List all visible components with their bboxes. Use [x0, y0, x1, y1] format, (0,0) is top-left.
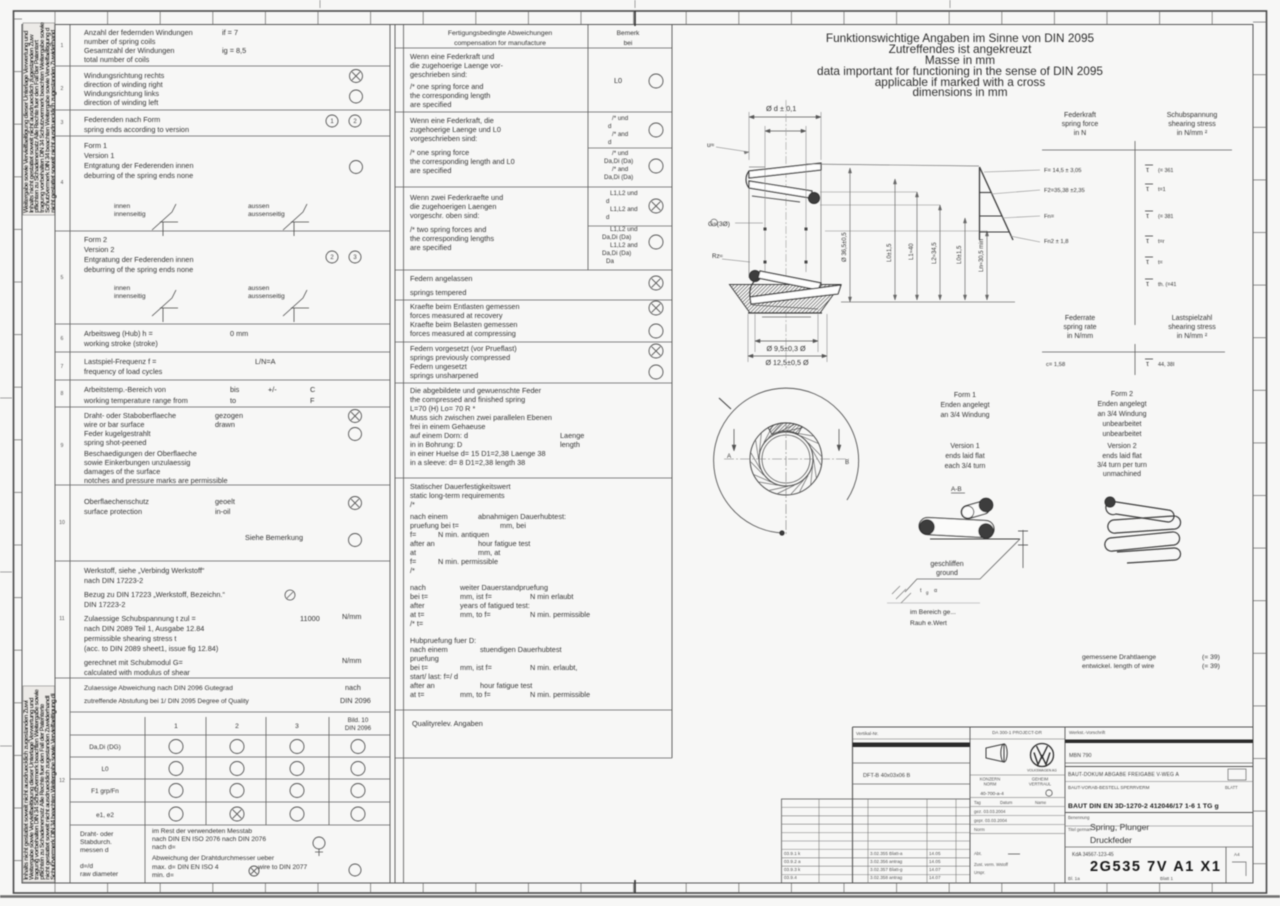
triangle leader lines — [984, 170, 1040, 172]
svg-text:Spring, Plunger: Spring, Plunger — [1090, 822, 1149, 832]
svg-text:springs unsharpened: springs unsharpened — [410, 371, 478, 380]
svg-text:forces measured at recovery: forces measured at recovery — [410, 311, 503, 320]
grid ticks right edge — [1253, 21, 1267, 23]
svg-text:Ø 9,5±0,3 Ø: Ø 9,5±0,3 Ø — [766, 344, 806, 353]
svg-text:τ: τ — [1146, 257, 1149, 266]
svg-text:N min. permissible: N min. permissible — [530, 690, 590, 699]
svg-text:d: d — [606, 214, 610, 221]
svg-text:14.07: 14.07 — [929, 875, 941, 880]
svg-text:14.05: 14.05 — [929, 859, 941, 864]
svg-text:e1, e2: e1, e2 — [96, 812, 114, 819]
svg-text:bei: bei — [624, 40, 633, 47]
row5 deburr sketch outer — [283, 290, 309, 322]
svg-text:in einer Huelse d= 15 D1=2,38: in einer Huelse d= 15 D1=2,38 Laenge 38 — [410, 449, 546, 458]
svg-text:raw diameter: raw diameter — [80, 871, 119, 878]
dim near spring vertical — [849, 168, 851, 302]
bottom row circle 3 — [249, 866, 259, 876]
mid r4 circle cross — [649, 276, 663, 290]
svg-text:KdA 34567-123-45: KdA 34567-123-45 — [1072, 852, 1114, 858]
svg-text:7: 7 — [61, 364, 64, 370]
lower wire capsule — [919, 517, 995, 538]
svg-text:N min. permissible: N min. permissible — [530, 610, 590, 619]
svg-text:Fertigungsbedingte Abweichunge: Fertigungsbedingte Abweichungen — [448, 30, 553, 37]
svg-text:Da,Di (DG): Da,Di (DG) — [89, 744, 121, 751]
svg-text:Entgratung der Federenden: Entgratung der Federenden innen — [84, 161, 194, 170]
svg-text:at: at — [410, 548, 416, 557]
svg-text:Muss sich zwischen zwei parall: Muss sich zwischen zwei parallelen Ebene… — [410, 413, 552, 422]
svg-text:2: 2 — [61, 86, 64, 92]
svg-text:Version 2: Version 2 — [84, 245, 114, 254]
svg-text:min. d=: min. d= — [152, 872, 174, 879]
row10 cross circle — [349, 497, 362, 510]
spring wire section dot bottom — [750, 271, 761, 282]
centering mark top — [634, 11, 636, 26]
fold ticks left of page — [0, 397, 12, 399]
svg-text:Bezug zu DIN 17223 „Werkstoff,: Bezug zu DIN 17223 „Werkstoff, Bezeichn.… — [84, 590, 225, 599]
svg-text:u≈: u≈ — [707, 142, 715, 149]
svg-text:damages of the surface: damages of the surface — [84, 467, 160, 476]
top view ring hatch lines — [814, 459, 817, 478]
row3 circled 1 — [326, 115, 338, 127]
top view ring outer — [750, 423, 822, 495]
svg-text:Name: Name — [1035, 800, 1047, 805]
flange seat hatched trapezoid — [730, 285, 841, 314]
svg-text:deburring of the spring ends: deburring of the spring ends none — [84, 171, 193, 180]
svg-text:Ø d ± 0,1: Ø d ± 0,1 — [766, 104, 796, 113]
svg-text:L1,L2 und: L1,L2 und — [610, 226, 638, 233]
svg-text:DIN 17223-2: DIN 17223-2 — [84, 600, 125, 609]
svg-text:6: 6 — [61, 336, 64, 342]
svg-text:/* and: /* and — [612, 131, 629, 138]
svg-text:BLATT: BLATT — [1225, 785, 1238, 790]
svg-text:aussen: aussen — [248, 285, 270, 292]
svg-text:gerechnet mit Schubmodul G=: gerechnet mit Schubmodul G= — [84, 658, 183, 667]
svg-text:working stroke (stroke): working stroke (stroke) — [83, 339, 158, 348]
svg-text:Werkst.-Vorschrift: Werkst.-Vorschrift — [1069, 730, 1106, 735]
svg-text:unbearbeitet: unbearbeitet — [1103, 431, 1142, 438]
svg-text:40-700-a-4: 40-700-a-4 — [980, 791, 1004, 797]
row11 small circle — [285, 590, 295, 600]
svg-text:/* two spring forces and: /* two spring forces and — [410, 225, 486, 234]
svg-text:f=: f= — [410, 530, 416, 539]
svg-text:Schubspannung: Schubspannung — [1167, 112, 1218, 119]
mid r5b circle — [649, 324, 663, 338]
svg-text:t=1: t=1 — [1158, 187, 1166, 193]
svg-text:d: d — [608, 139, 612, 146]
svg-text:Zust. verm. Wstoff: Zust. verm. Wstoff — [974, 862, 1009, 867]
mid r2a circle — [649, 123, 663, 137]
svg-text:/* one spring force: /* one spring force — [410, 148, 469, 157]
top view ring dense hatch top wedge — [768, 423, 802, 435]
middle column row lines — [395, 47, 672, 49]
top view bore circle — [762, 435, 810, 483]
svg-text:gepr. 03.03.2004: gepr. 03.03.2004 — [974, 818, 1008, 823]
center line vertical — [785, 100, 787, 368]
svg-text:spring force: spring force — [1062, 121, 1099, 128]
row4 deburr sketch inner — [152, 204, 178, 236]
svg-text:14.05: 14.05 — [929, 851, 941, 856]
reference line Ln — [825, 230, 987, 232]
svg-text:in N: in N — [1074, 130, 1086, 137]
svg-text:im Bereich ge...: im Bereich ge... — [910, 609, 956, 616]
svg-text:nach DIN 17223-2: nach DIN 17223-2 — [84, 576, 143, 585]
svg-text:F= 14,5 ± 3,05: F= 14,5 ± 3,05 — [1044, 168, 1082, 174]
svg-text:spring rate: spring rate — [1063, 324, 1096, 331]
svg-text:Rz≈: Rz≈ — [712, 253, 724, 260]
svg-text:9: 9 — [61, 443, 64, 449]
svg-text:Siehe Bemerkung: Siehe Bemerkung — [245, 533, 303, 542]
svg-text:static long-term requirements: static long-term requirements — [410, 491, 505, 500]
svg-text:Ø 36,5±0,5: Ø 36,5±0,5 — [842, 232, 848, 262]
svg-text:Fn2 ± 1,8: Fn2 ± 1,8 — [1044, 239, 1068, 245]
svg-text:spring shot-peened: spring shot-peened — [84, 438, 146, 447]
svg-text:Werkstoff, siehe „Verbindg Wer: Werkstoff, siehe „Verbindg Werkstoff“ — [84, 566, 205, 575]
svg-text:im Rest der verwendeten Messta: im Rest der verwendeten Messtab — [152, 828, 252, 835]
svg-text:mm, at: mm, at — [478, 548, 500, 557]
svg-text:messen d: messen d — [80, 847, 109, 854]
svg-text:L1≈40: L1≈40 — [909, 243, 915, 260]
left table row lines — [55, 65, 390, 67]
svg-text:14.07: 14.07 — [929, 867, 941, 872]
svg-text:A-B: A-B — [951, 486, 962, 493]
svg-text:N/mm: N/mm — [342, 612, 361, 621]
svg-text:L1,L2 and: L1,L2 and — [610, 242, 638, 249]
svg-text:(= 381: (= 381 — [1158, 214, 1173, 220]
svg-text:Draht- oder: Draht- oder — [80, 831, 114, 838]
svg-text:DFT-B 40x03x06 B: DFT-B 40x03x06 B — [863, 773, 911, 779]
row4 circle — [350, 161, 363, 174]
upper wire capsule — [960, 500, 991, 520]
svg-text:DIN 2096: DIN 2096 — [345, 725, 372, 732]
row4 deburr sketch outer — [283, 204, 309, 236]
profile hatch — [892, 586, 911, 603]
svg-text:Draht- oder Staboberflaeche: Draht- oder Staboberflaeche — [84, 411, 176, 420]
bottom wire diameter row — [144, 825, 146, 883]
svg-text:aussenseitig: aussenseitig — [248, 293, 285, 300]
svg-text:geschrieben sind:: geschrieben sind: — [410, 70, 467, 79]
svg-text:VOLKSWAGEN AG: VOLKSWAGEN AG — [1027, 769, 1057, 773]
svg-text:Statischer Dauerfestigkeitswer: Statischer Dauerfestigkeitswert — [410, 482, 511, 491]
svg-text:/*: /* — [410, 566, 415, 575]
svg-text:hour fatigue test: hour fatigue test — [480, 681, 532, 690]
svg-text:τ: τ — [1146, 165, 1149, 174]
svg-text:nach: nach — [345, 683, 361, 692]
svg-text:/*: /* — [410, 500, 415, 509]
svg-text:gez. 03.03.2004: gez. 03.03.2004 — [974, 809, 1006, 814]
svg-text:at t=: at t= — [410, 690, 424, 699]
svg-text:at t=: at t= — [410, 610, 424, 619]
row2 cross circle — [350, 70, 363, 83]
svg-text:the corresponding length and L: the corresponding length and L0 — [410, 157, 515, 166]
svg-text:Entgratung der Federenden: Entgratung der Federenden innen — [84, 255, 194, 264]
svg-text:an 3/4 Windung: an 3/4 Windung — [1097, 411, 1146, 418]
svg-text:Benennung: Benennung — [1068, 815, 1090, 820]
svg-text:1: 1 — [61, 43, 64, 49]
svg-text:Lastspielzahl: Lastspielzahl — [1172, 315, 1213, 322]
svg-text:12: 12 — [59, 778, 65, 784]
svg-text:4: 4 — [61, 180, 64, 186]
svg-text:Arbeitsweg (Hub) h =: Arbeitsweg (Hub) h = — [84, 329, 153, 338]
spring bottom coil band up-right — [750, 285, 841, 304]
top view coil end dot — [780, 531, 784, 535]
mid r1 circle — [649, 74, 663, 88]
bottom extension lines — [754, 314, 756, 352]
lower capsule dark end left — [920, 520, 934, 534]
svg-text:L0±1,5: L0±1,5 — [957, 245, 963, 264]
svg-text:deburring of the spring ends: deburring of the spring ends none — [84, 265, 193, 274]
svg-text:are specified: are specified — [410, 243, 451, 252]
svg-text:an 3/4 Windung: an 3/4 Windung — [940, 412, 989, 419]
extension lines — [748, 112, 750, 160]
mid r6a circle cross — [649, 344, 663, 358]
svg-text:working temperature range from: working temperature range from — [83, 396, 188, 405]
svg-text:surface protection: surface protection — [84, 507, 142, 516]
load diagram triangle — [979, 167, 981, 240]
svg-text:compensation for manufacture: compensation for manufacture — [454, 40, 546, 47]
svg-text:springs previously compressed: springs previously compressed — [410, 353, 510, 362]
svg-text:3/4 turn per turn: 3/4 turn per turn — [1097, 462, 1147, 469]
ground surface profile — [905, 539, 1020, 592]
middle column sub cell lines — [588, 147, 672, 149]
svg-text:(acc. to DIN 2089 sheet1, issu: (acc. to DIN 2089 sheet1, issue fig 12.8… — [84, 644, 218, 653]
svg-text:(= 39): (= 39) — [1202, 663, 1220, 670]
rate table divider — [1134, 344, 1136, 375]
svg-text:Ø 12,5±0,5 Ø: Ø 12,5±0,5 Ø — [765, 358, 809, 367]
svg-text:dimensions in mm: dimensions in mm — [912, 85, 1007, 99]
svg-text:die zugehoerige Laenge vor-: die zugehoerige Laenge vor- — [410, 61, 503, 70]
svg-text:11000: 11000 — [300, 614, 320, 623]
svg-text:hour fatigue test: hour fatigue test — [478, 539, 530, 548]
spring bottom coil left bend — [750, 278, 758, 297]
svg-text:Beschaedigungen der Oberflaech: Beschaedigungen der Oberflaeche — [84, 449, 197, 458]
svg-text:die zugehoerigen Laengen: die zugehoerigen Laengen — [410, 202, 496, 211]
svg-text:vorgeschrieben sind:: vorgeschrieben sind: — [410, 134, 477, 143]
svg-text:Hubpruefung fuer D:: Hubpruefung fuer D: — [410, 636, 476, 645]
svg-text:Datum: Datum — [1000, 800, 1013, 805]
svg-text:2G535 7V A1 X1: 2G535 7V A1 X1 — [1090, 859, 1222, 875]
svg-text:44, 38I: 44, 38I — [1158, 362, 1175, 368]
row5 circled 3 — [349, 251, 361, 263]
svg-text:τ: τ — [1146, 211, 1149, 220]
svg-text:11: 11 — [59, 616, 64, 622]
grid ticks top edge — [54, 11, 56, 25]
svg-text:Die abgebildete und gewuenscht: Die abgebildete und gewuenschte Feder — [410, 386, 542, 395]
mid r3b circle — [649, 235, 663, 249]
svg-text:notches and pressure marks are: notches and pressure marks are permissib… — [84, 476, 228, 485]
svg-text:Tag: Tag — [974, 800, 981, 805]
mid r6b circle — [649, 365, 663, 379]
svg-text:springs tempered: springs tempered — [410, 288, 466, 297]
svg-text:/* one spring force and: /* one spring force and — [410, 82, 483, 91]
svg-text:Oberflaechenschutz: Oberflaechenschutz — [84, 497, 149, 506]
svg-text:years of fatigued test:: years of fatigued test: — [460, 601, 530, 610]
svg-text:Federkraft: Federkraft — [1064, 112, 1096, 119]
svg-text:mm, ist f=: mm, ist f= — [460, 663, 492, 672]
lower left rotated notes strip — [23, 686, 55, 882]
row2 empty circle — [350, 90, 363, 103]
spring top coil band 2 — [749, 181, 812, 198]
svg-text:/* und: /* und — [612, 150, 629, 157]
svg-text:in N/mm ²: in N/mm ² — [1177, 333, 1208, 340]
svg-text:τ: τ — [1146, 359, 1149, 368]
svg-text:unmachined: unmachined — [1103, 471, 1141, 478]
svg-text:Abt.: Abt. — [974, 851, 982, 856]
svg-text:Windungsrichtung rechts: Windungsrichtung rechts — [84, 71, 165, 80]
mid r5a circle cross — [649, 301, 663, 315]
top view crosshair vertical — [785, 424, 787, 535]
svg-text:α: α — [934, 588, 937, 594]
svg-text:start/ last: f=/ d: start/ last: f=/ d — [410, 672, 458, 681]
row9 cross circle — [349, 410, 362, 423]
svg-text:gezogen: gezogen — [215, 411, 243, 420]
svg-text:Wenn eine Federkraft, die: Wenn eine Federkraft, die — [410, 116, 494, 125]
svg-text:2: 2 — [235, 723, 239, 730]
svg-text:C: C — [310, 385, 315, 394]
svg-text:Form 1: Form 1 — [84, 141, 107, 150]
svg-text:mm, bei: mm, bei — [500, 521, 526, 530]
svg-text:bei t=: bei t= — [410, 663, 428, 672]
baseline reference — [841, 301, 1015, 303]
svg-text:(= 39): (= 39) — [1202, 654, 1220, 661]
svg-text:number of spring coils: number of spring coils — [84, 37, 156, 46]
svg-text:Da,Di (Da): Da,Di (Da) — [604, 174, 633, 181]
svg-text:Druckfeder: Druckfeder — [1090, 835, 1132, 845]
row5 deburr sketch inner — [152, 290, 178, 322]
reference line L1 — [820, 191, 917, 193]
svg-text:innenseitig: innenseitig — [114, 293, 146, 300]
spring top coil left bend — [746, 171, 749, 188]
middle column verticals — [394, 25, 396, 884]
row10 empty circle — [349, 534, 362, 547]
svg-text:F: F — [310, 396, 315, 405]
svg-text:L0: L0 — [101, 766, 109, 773]
svg-text:Kraefte beim Belasten gemessen: Kraefte beim Belasten gemessen — [410, 320, 518, 329]
svg-text:ig = 8,5: ig = 8,5 — [222, 46, 246, 55]
svg-text:shearing stress: shearing stress — [1168, 324, 1216, 331]
upper left rotated notes strip — [23, 23, 55, 215]
svg-text:3: 3 — [295, 723, 299, 730]
svg-text:Da,Di (Da): Da,Di (Da) — [604, 158, 633, 165]
svg-text:innen: innen — [114, 285, 130, 292]
svg-text:Lastspiel-Frequenz f =: Lastspiel-Frequenz f = — [84, 357, 156, 366]
svg-text:direction of winding right: direction of winding right — [84, 80, 163, 89]
svg-text:BAUT-VORAB-BESTELL SPERRVERM: BAUT-VORAB-BESTELL SPERRVERM — [1068, 785, 1150, 790]
svg-text:length: length — [560, 440, 580, 449]
matrix circles — [169, 740, 183, 754]
ground base line — [930, 538, 1020, 540]
svg-text:nach einem: nach einem — [410, 512, 448, 521]
svg-text:Federn ungesetzt: Federn ungesetzt — [410, 362, 467, 371]
svg-text:NORM: NORM — [984, 782, 997, 787]
revision table grid — [782, 799, 971, 883]
matrix horizontals — [70, 711, 390, 713]
VW logo — [1031, 744, 1054, 767]
svg-text:/* and: /* and — [612, 166, 629, 173]
force table header line — [1042, 149, 1232, 151]
svg-text:3.02.357 Blatt-g: 3.02.357 Blatt-g — [870, 867, 903, 872]
bottom row circle 2 — [349, 864, 361, 876]
svg-text:nach: nach — [410, 583, 426, 592]
svg-text:τ: τ — [1146, 184, 1149, 193]
force table divider — [1134, 141, 1136, 325]
svg-text:1: 1 — [174, 723, 178, 730]
svg-text:/* t=: /* t= — [410, 619, 423, 628]
flange bottom line — [748, 312, 822, 314]
svg-text:Wenn eine Federkraft und: Wenn eine Federkraft und — [410, 52, 494, 61]
svg-text:bis: bis — [230, 385, 240, 394]
top view wire end tick — [719, 398, 731, 409]
svg-text:in in Bohrung: D: in in Bohrung: D — [410, 440, 462, 449]
svg-text:abnahmigen Dauerhubtest:: abnahmigen Dauerhubtest: — [478, 512, 566, 521]
svg-text:Kraefte beim Entlasten gemesse: Kraefte beim Entlasten gemessen — [410, 302, 520, 311]
svg-text:/* und: /* und — [612, 115, 629, 122]
svg-text:8: 8 — [61, 391, 64, 397]
svg-text:3.02.356 antrag: 3.02.356 antrag — [870, 859, 903, 864]
svg-text:wire or bar surface: wire or bar surface — [83, 420, 144, 429]
svg-text:after: after — [410, 601, 425, 610]
svg-text:are specified: are specified — [410, 100, 451, 109]
svg-text:frei in einem Gehaeuse: frei in einem Gehaeuse — [410, 422, 485, 431]
grid ticks left edge — [14, 18, 23, 20]
svg-text:3.02.358 antrag: 3.02.358 antrag — [870, 875, 903, 880]
svg-text:d: d — [608, 123, 612, 130]
perspective spring end dot — [1105, 497, 1115, 507]
svg-text:ends laid flat: ends laid flat — [945, 453, 984, 460]
bottom dim 1 — [755, 340, 818, 342]
svg-text:Windungsrichtung links: Windungsrichtung links — [84, 89, 159, 98]
svg-text:Zulaessige Abweichung nach DIN: Zulaessige Abweichung nach DIN 2096 Gute… — [84, 685, 233, 692]
svg-text:ground: ground — [936, 570, 958, 577]
svg-text:nicht gestattet soweit nicht a: nicht gestattet soweit nicht ausdrueckli… — [50, 30, 57, 213]
spring bottom coil lower line — [752, 305, 818, 309]
svg-text:Arbeitstemp.-Bereich von: Arbeitstemp.-Bereich von — [84, 385, 166, 394]
svg-text:Form 1: Form 1 — [954, 392, 976, 399]
svg-text:10: 10 — [59, 520, 65, 526]
svg-text:in N/mm ²: in N/mm ² — [1177, 130, 1208, 137]
matrix verticals — [144, 717, 146, 825]
svg-text:calculated with modulus of she: calculated with modulus of shear — [84, 668, 190, 677]
svg-text:0 mm: 0 mm — [230, 329, 248, 338]
svg-text:τ: τ — [1146, 236, 1149, 245]
svg-text:f=: f= — [410, 557, 416, 566]
svg-text:03.9.3 k: 03.9.3 k — [784, 867, 801, 872]
svg-text:N/mm: N/mm — [342, 656, 361, 665]
rate table header line — [1042, 351, 1225, 353]
svg-text:frequency of load cycles: frequency of load cycles — [84, 367, 163, 376]
svg-text:aussen: aussen — [248, 203, 270, 210]
svg-text:pruefung: pruefung — [410, 654, 439, 663]
svg-text:shearing stress: shearing stress — [1168, 121, 1216, 128]
spring bottom coil band down-right — [758, 271, 821, 290]
svg-text:auf einem Dorn: d: auf einem Dorn: d — [410, 431, 468, 440]
svg-text:5: 5 — [61, 275, 64, 281]
top view crosshair horizontal — [724, 458, 849, 460]
spring top coil tail line — [752, 196, 800, 202]
svg-text:the corresponding lengths: the corresponding lengths — [410, 234, 494, 243]
svg-text:innenseitig: innenseitig — [114, 211, 146, 218]
svg-text:Qualityrelev. Angaben: Qualityrelev. Angaben — [412, 719, 483, 728]
svg-text:Rauh e.Wert: Rauh e.Wert — [910, 620, 947, 627]
svg-text:sowie Einkerbungen unzulaessig: sowie Einkerbungen unzulaessig — [84, 458, 190, 467]
svg-text:t=: t= — [1158, 260, 1163, 266]
grid ticks bottom edge — [54, 883, 56, 893]
svg-text:Federrate: Federrate — [1065, 315, 1095, 322]
svg-text:VERTRAUL: VERTRAUL — [1029, 782, 1052, 787]
svg-text:unbearbeitet: unbearbeitet — [1103, 421, 1142, 428]
projection symbol — [986, 744, 1004, 762]
svg-text:Enden angelegt: Enden angelegt — [940, 402, 989, 409]
svg-text:Da: Da — [606, 258, 614, 265]
